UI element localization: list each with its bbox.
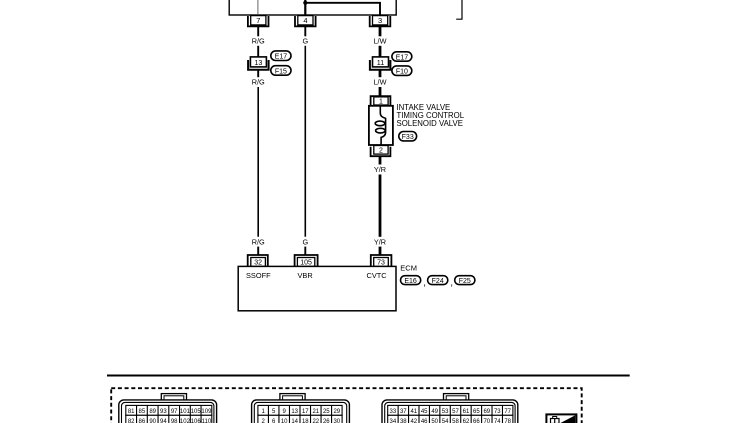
svg-text:86: 86	[139, 419, 146, 423]
svg-text:93: 93	[160, 409, 167, 415]
svg-text:13: 13	[254, 58, 262, 67]
svg-text:42: 42	[410, 419, 417, 423]
svg-text:18: 18	[302, 419, 309, 423]
wire (thick) branch to pin 3	[305, 3, 380, 15]
svg-text:101: 101	[180, 409, 191, 415]
wire stub to ECM pin 73 (thick)	[379, 247, 382, 255]
svg-text:F24: F24	[432, 278, 444, 285]
svg-text:E17: E17	[396, 54, 409, 61]
svg-text:R/G: R/G	[252, 78, 265, 87]
wire R/G (long run to ECM)	[257, 87, 259, 237]
svg-text:G: G	[302, 238, 308, 247]
connector F25 grid row 2 (34-78, clipped)	[388, 415, 513, 423]
ECM connector face view E16 (terminals 81-110)	[119, 394, 217, 423]
wire stub to ECM pin 32	[257, 247, 259, 255]
svg-text:1: 1	[379, 99, 383, 106]
connector label E16	[401, 276, 421, 285]
svg-text:2: 2	[379, 148, 383, 155]
wire stub pin4	[304, 26, 306, 36]
wire label L/W (1)	[374, 37, 387, 46]
svg-text:22: 22	[312, 419, 319, 423]
svg-text:L/W: L/W	[374, 78, 387, 87]
svg-text:F10: F10	[396, 69, 408, 76]
wire label L/W (2)	[374, 78, 387, 87]
svg-text:81: 81	[128, 409, 135, 415]
svg-text:R/G: R/G	[252, 37, 265, 46]
wire label G (1)	[302, 37, 308, 46]
connector 11	[370, 57, 391, 70]
solenoid pin 2	[371, 146, 391, 157]
svg-text:17: 17	[302, 409, 309, 415]
ECM label	[400, 263, 417, 272]
wire (thick) inside box to pin 4	[304, 0, 306, 15]
svg-text:90: 90	[149, 419, 156, 423]
wire below connector 11 (thick)	[379, 70, 382, 78]
svg-text:Y/R: Y/R	[374, 165, 386, 174]
svg-text:54: 54	[442, 419, 449, 423]
svg-text:66: 66	[473, 419, 480, 423]
svg-text:3: 3	[378, 16, 382, 25]
comma 1	[423, 278, 426, 289]
svg-text:49: 49	[431, 409, 438, 415]
separator line	[107, 375, 630, 377]
svg-text:F33: F33	[402, 134, 414, 141]
svg-text:CVTC: CVTC	[367, 271, 388, 280]
svg-text:21: 21	[312, 409, 319, 415]
svg-text:110: 110	[202, 419, 212, 423]
wire label R/G (2)	[252, 78, 265, 87]
svg-text:46: 46	[421, 419, 428, 423]
svg-text:109: 109	[201, 409, 212, 415]
ECM pin 32	[248, 255, 268, 267]
svg-text:,: ,	[423, 278, 426, 289]
svg-text:26: 26	[323, 419, 330, 423]
wire L/W to solenoid pin 1	[379, 87, 382, 96]
svg-text:61: 61	[463, 409, 470, 415]
wire G (long run to ECM)	[304, 46, 306, 237]
svg-text:62: 62	[463, 419, 470, 423]
svg-text:,: ,	[450, 278, 453, 289]
ECM connector face view F24 (terminals 1-30)	[252, 394, 350, 423]
bracket corner (cut-off box, right)	[456, 0, 462, 19]
wire label Y/R (1)	[374, 165, 386, 174]
svg-text:70: 70	[483, 419, 490, 423]
svg-text:82: 82	[128, 419, 135, 423]
svg-text:73: 73	[494, 409, 501, 415]
pin 4	[295, 16, 316, 27]
svg-text:106: 106	[191, 419, 202, 423]
source box (cut off at top)	[229, 0, 396, 15]
wire inside box to pin 7	[257, 0, 259, 15]
comma 2	[450, 278, 453, 289]
svg-text:13: 13	[291, 409, 298, 415]
connector label F24	[428, 276, 448, 285]
svg-text:74: 74	[494, 419, 501, 423]
svg-text:57: 57	[452, 409, 459, 415]
svg-text:45: 45	[421, 409, 428, 415]
svg-text:69: 69	[483, 409, 490, 415]
wire stub to ECM pin 105	[304, 247, 306, 255]
svg-text:Y/R: Y/R	[374, 238, 386, 247]
wire L/W to connector 11	[379, 46, 382, 57]
connector label F10	[392, 66, 412, 76]
svg-text:34: 34	[390, 419, 397, 423]
wire R/G to connector 13	[257, 46, 259, 57]
connector label E17 (col 1)	[271, 51, 291, 61]
wire Y/R (long run to ECM)	[379, 175, 382, 237]
wire label R/G (1)	[252, 37, 265, 46]
connector label E17 (col 3)	[392, 52, 412, 62]
svg-text:VBR: VBR	[298, 271, 313, 280]
wire label G (2)	[302, 238, 308, 247]
svg-text:97: 97	[171, 409, 178, 415]
svg-text:SOLENOID VALVE: SOLENOID VALVE	[397, 119, 463, 128]
svg-text:14: 14	[291, 419, 298, 423]
svg-text:41: 41	[410, 409, 417, 415]
ECM connector face view F25 (terminals 33-78)	[382, 394, 518, 423]
ECM box	[238, 266, 396, 310]
label: INTAKE VALVE TIMING CONTROL SOLENOID VALVE	[397, 103, 465, 128]
svg-text:50: 50	[431, 419, 438, 423]
svg-text:38: 38	[400, 419, 407, 423]
connector label F15	[271, 66, 291, 76]
svg-text:10: 10	[281, 419, 288, 423]
svg-text:SSOFF: SSOFF	[246, 271, 271, 280]
svg-text:4: 4	[303, 16, 307, 25]
svg-text:ECM: ECM	[400, 263, 417, 272]
svg-text:G: G	[302, 37, 308, 46]
svg-text:33: 33	[390, 409, 397, 415]
pin 3	[370, 16, 391, 27]
svg-text:58: 58	[452, 419, 459, 423]
svg-text:89: 89	[149, 409, 156, 415]
svg-text:29: 29	[333, 409, 340, 415]
H.S. view icon (clipped at bottom)	[546, 414, 576, 423]
wire below solenoid (thick)	[379, 156, 382, 164]
wire stub pin7	[257, 26, 259, 36]
svg-text:L/W: L/W	[374, 37, 387, 46]
svg-text:105: 105	[191, 409, 202, 415]
svg-text:94: 94	[160, 419, 167, 423]
connector label F25	[455, 276, 475, 285]
connector 13	[248, 57, 269, 70]
connector F24 grid row 1 (1-29)	[258, 405, 342, 415]
junction dot	[303, 1, 307, 5]
svg-text:65: 65	[473, 409, 480, 415]
svg-text:30: 30	[333, 419, 340, 423]
svg-text:85: 85	[139, 409, 146, 415]
detail box (dashed, cut off at bottom)	[111, 388, 582, 423]
solenoid pin 1	[371, 96, 391, 105]
svg-text:F25: F25	[459, 278, 471, 285]
wire below connector 13	[257, 70, 259, 78]
connector E16 grid row 2 (82-110, clipped)	[126, 415, 212, 423]
svg-text:E17: E17	[275, 54, 288, 61]
svg-text:102: 102	[180, 419, 191, 423]
svg-text:R/G: R/G	[252, 238, 265, 247]
connector label F33	[399, 132, 417, 142]
solenoid valve body (coil)	[369, 106, 393, 145]
ECM pin 105	[295, 255, 318, 267]
ECM pin 73	[371, 255, 392, 267]
svg-text:78: 78	[504, 419, 511, 423]
wire label Y/R (2)	[374, 238, 386, 247]
pin 7	[248, 16, 269, 27]
connector F24 grid row 2 (2-30, clipped)	[258, 415, 342, 423]
svg-text:53: 53	[442, 409, 449, 415]
wire stub pin3 (thick)	[379, 26, 382, 36]
svg-text:7: 7	[256, 16, 260, 25]
svg-text:F15: F15	[275, 68, 287, 75]
connector F25 grid row 1 (33-77)	[388, 405, 513, 415]
svg-text:98: 98	[171, 419, 178, 423]
svg-text:25: 25	[323, 409, 330, 415]
svg-text:E16: E16	[404, 278, 417, 285]
svg-text:77: 77	[504, 409, 511, 415]
wire label R/G (3)	[252, 238, 265, 247]
svg-text:37: 37	[400, 409, 407, 415]
svg-text:11: 11	[377, 58, 384, 67]
connector E16 grid row 1 (81-109)	[126, 405, 212, 415]
